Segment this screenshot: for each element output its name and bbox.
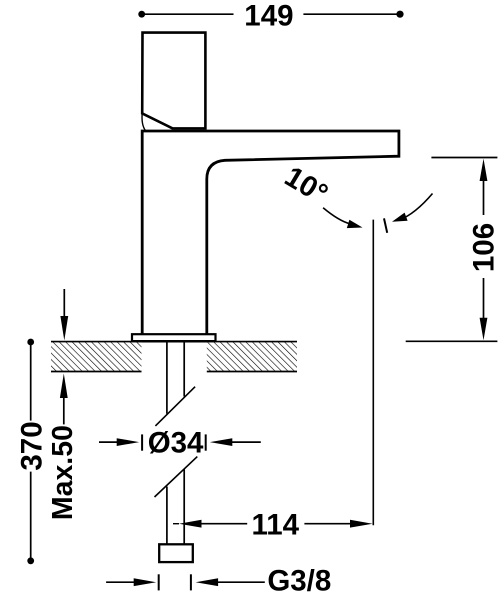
dimension diameter 34 right arrow <box>210 438 233 446</box>
handle front sliver curve <box>142 113 145 130</box>
dimension 370 end dots <box>27 339 34 346</box>
tilted outlet axis tick <box>384 218 387 232</box>
dimension 106 top extension line <box>431 157 497 159</box>
Max.50 up arrow <box>63 396 65 424</box>
dimension 370 vertical line <box>30 342 32 561</box>
dimension 106 bottom extension line <box>406 340 498 342</box>
supply pipe lower segment <box>167 470 184 545</box>
dimension 114 line left arrow <box>173 523 179 525</box>
dimension G3/8 right arrow <box>196 578 219 586</box>
svg-text:106: 106 <box>467 223 500 272</box>
svg-text:149: 149 <box>244 0 293 33</box>
outlet vertical axis line <box>372 220 374 526</box>
base flange plate <box>132 334 216 341</box>
dimension 149 line <box>142 13 400 15</box>
svg-text:G3/8: G3/8 <box>267 564 331 597</box>
angle arc right with arrowhead <box>400 194 433 220</box>
counter right hatched block <box>207 342 297 371</box>
dimension G3/8 left arrow <box>106 581 136 583</box>
svg-text:370: 370 <box>15 421 48 470</box>
dimension diameter 34 left arrow <box>99 441 119 443</box>
faucet body outline <box>142 131 399 335</box>
svg-text:Max.50: Max.50 <box>47 425 79 520</box>
dimension 149 end dots <box>138 11 145 18</box>
pipe break slash upper <box>155 387 195 426</box>
pipe break slash lower <box>155 457 198 497</box>
Max.50 down arrow <box>63 289 65 318</box>
svg-text:114: 114 <box>252 508 300 541</box>
dimension 106 vertical line with arrows <box>483 178 485 322</box>
counter top line <box>51 341 297 343</box>
svg-text:Ø34: Ø34 <box>148 427 204 460</box>
handle lever <box>142 33 205 129</box>
dimension 114 line right arrow <box>304 523 352 525</box>
G3/8 connector nut <box>159 544 193 562</box>
dimension G3/8 left tick <box>158 574 160 590</box>
counter left hatched block <box>51 342 142 371</box>
supply pipe upper segment <box>167 341 184 414</box>
dimension G3/8 right tick <box>190 574 192 590</box>
angle arc left with arrowhead <box>323 208 350 224</box>
dimension diameter 34 left tick <box>141 434 143 450</box>
dimension diameter 34 right tick <box>205 434 207 450</box>
